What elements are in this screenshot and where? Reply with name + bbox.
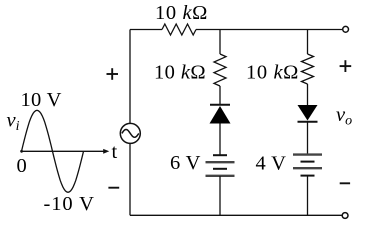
origin dot <box>20 150 23 153</box>
output plus sign <box>340 60 352 72</box>
wire: top rail right segment to output terminal <box>196 29 342 31</box>
input waveform sine vi <box>22 110 84 192</box>
diode D1 cathode bar <box>210 104 230 106</box>
sinusoidal source inner sine <box>122 130 139 138</box>
wire: battery B1 to bottom rail <box>219 176 221 215</box>
wire: left vertical, top corner to source <box>129 30 131 124</box>
output terminal (top) <box>343 26 349 32</box>
resistor R1 10 kOhm (top, horizontal) <box>162 24 196 35</box>
wire: middle branch top <box>219 30 221 55</box>
diode D2 (points down) <box>298 105 318 121</box>
diode D1 (points up) <box>210 106 231 124</box>
diode D2 cathode bar <box>298 121 318 123</box>
wire: R3 to diode D2 <box>307 84 309 105</box>
svg-text:10 kΩ: 10 kΩ <box>154 62 206 84</box>
svg-text:-10 V: -10 V <box>44 193 95 215</box>
time axis arrowhead <box>103 149 109 154</box>
output terminal (bottom) <box>342 213 348 219</box>
wire: top rail left segment <box>130 29 162 31</box>
svg-text:4 V: 4 V <box>256 153 287 175</box>
wire: bottom rail <box>130 214 342 216</box>
output minus sign <box>340 182 350 184</box>
time axis t <box>22 150 105 152</box>
wire: D2 to battery B2 <box>307 122 309 155</box>
source minus sign <box>108 187 119 189</box>
svg-text:6 V: 6 V <box>170 152 201 174</box>
svg-text:10 kΩ: 10 kΩ <box>155 2 208 24</box>
sinusoidal source Vs circle <box>120 123 140 143</box>
wire: right branch top <box>307 30 309 55</box>
resistor R3 10 kOhm (right, vertical) <box>302 54 314 84</box>
svg-text:10 V: 10 V <box>21 89 62 111</box>
svg-text:0: 0 <box>17 155 27 177</box>
wire: D1 to battery B1 <box>219 124 221 156</box>
resistor R2 10 kOhm (middle, vertical) <box>214 54 226 86</box>
svg-text:t: t <box>112 141 118 163</box>
battery B2 4 V <box>293 155 322 176</box>
source plus sign <box>107 68 119 80</box>
wire: battery B2 to bottom rail <box>307 176 309 216</box>
svg-text:10 kΩ: 10 kΩ <box>246 62 299 84</box>
wire: R2 to diode D1 <box>219 86 221 105</box>
wire: source to bottom-left corner <box>129 143 131 215</box>
battery B1 6 V <box>206 155 235 176</box>
